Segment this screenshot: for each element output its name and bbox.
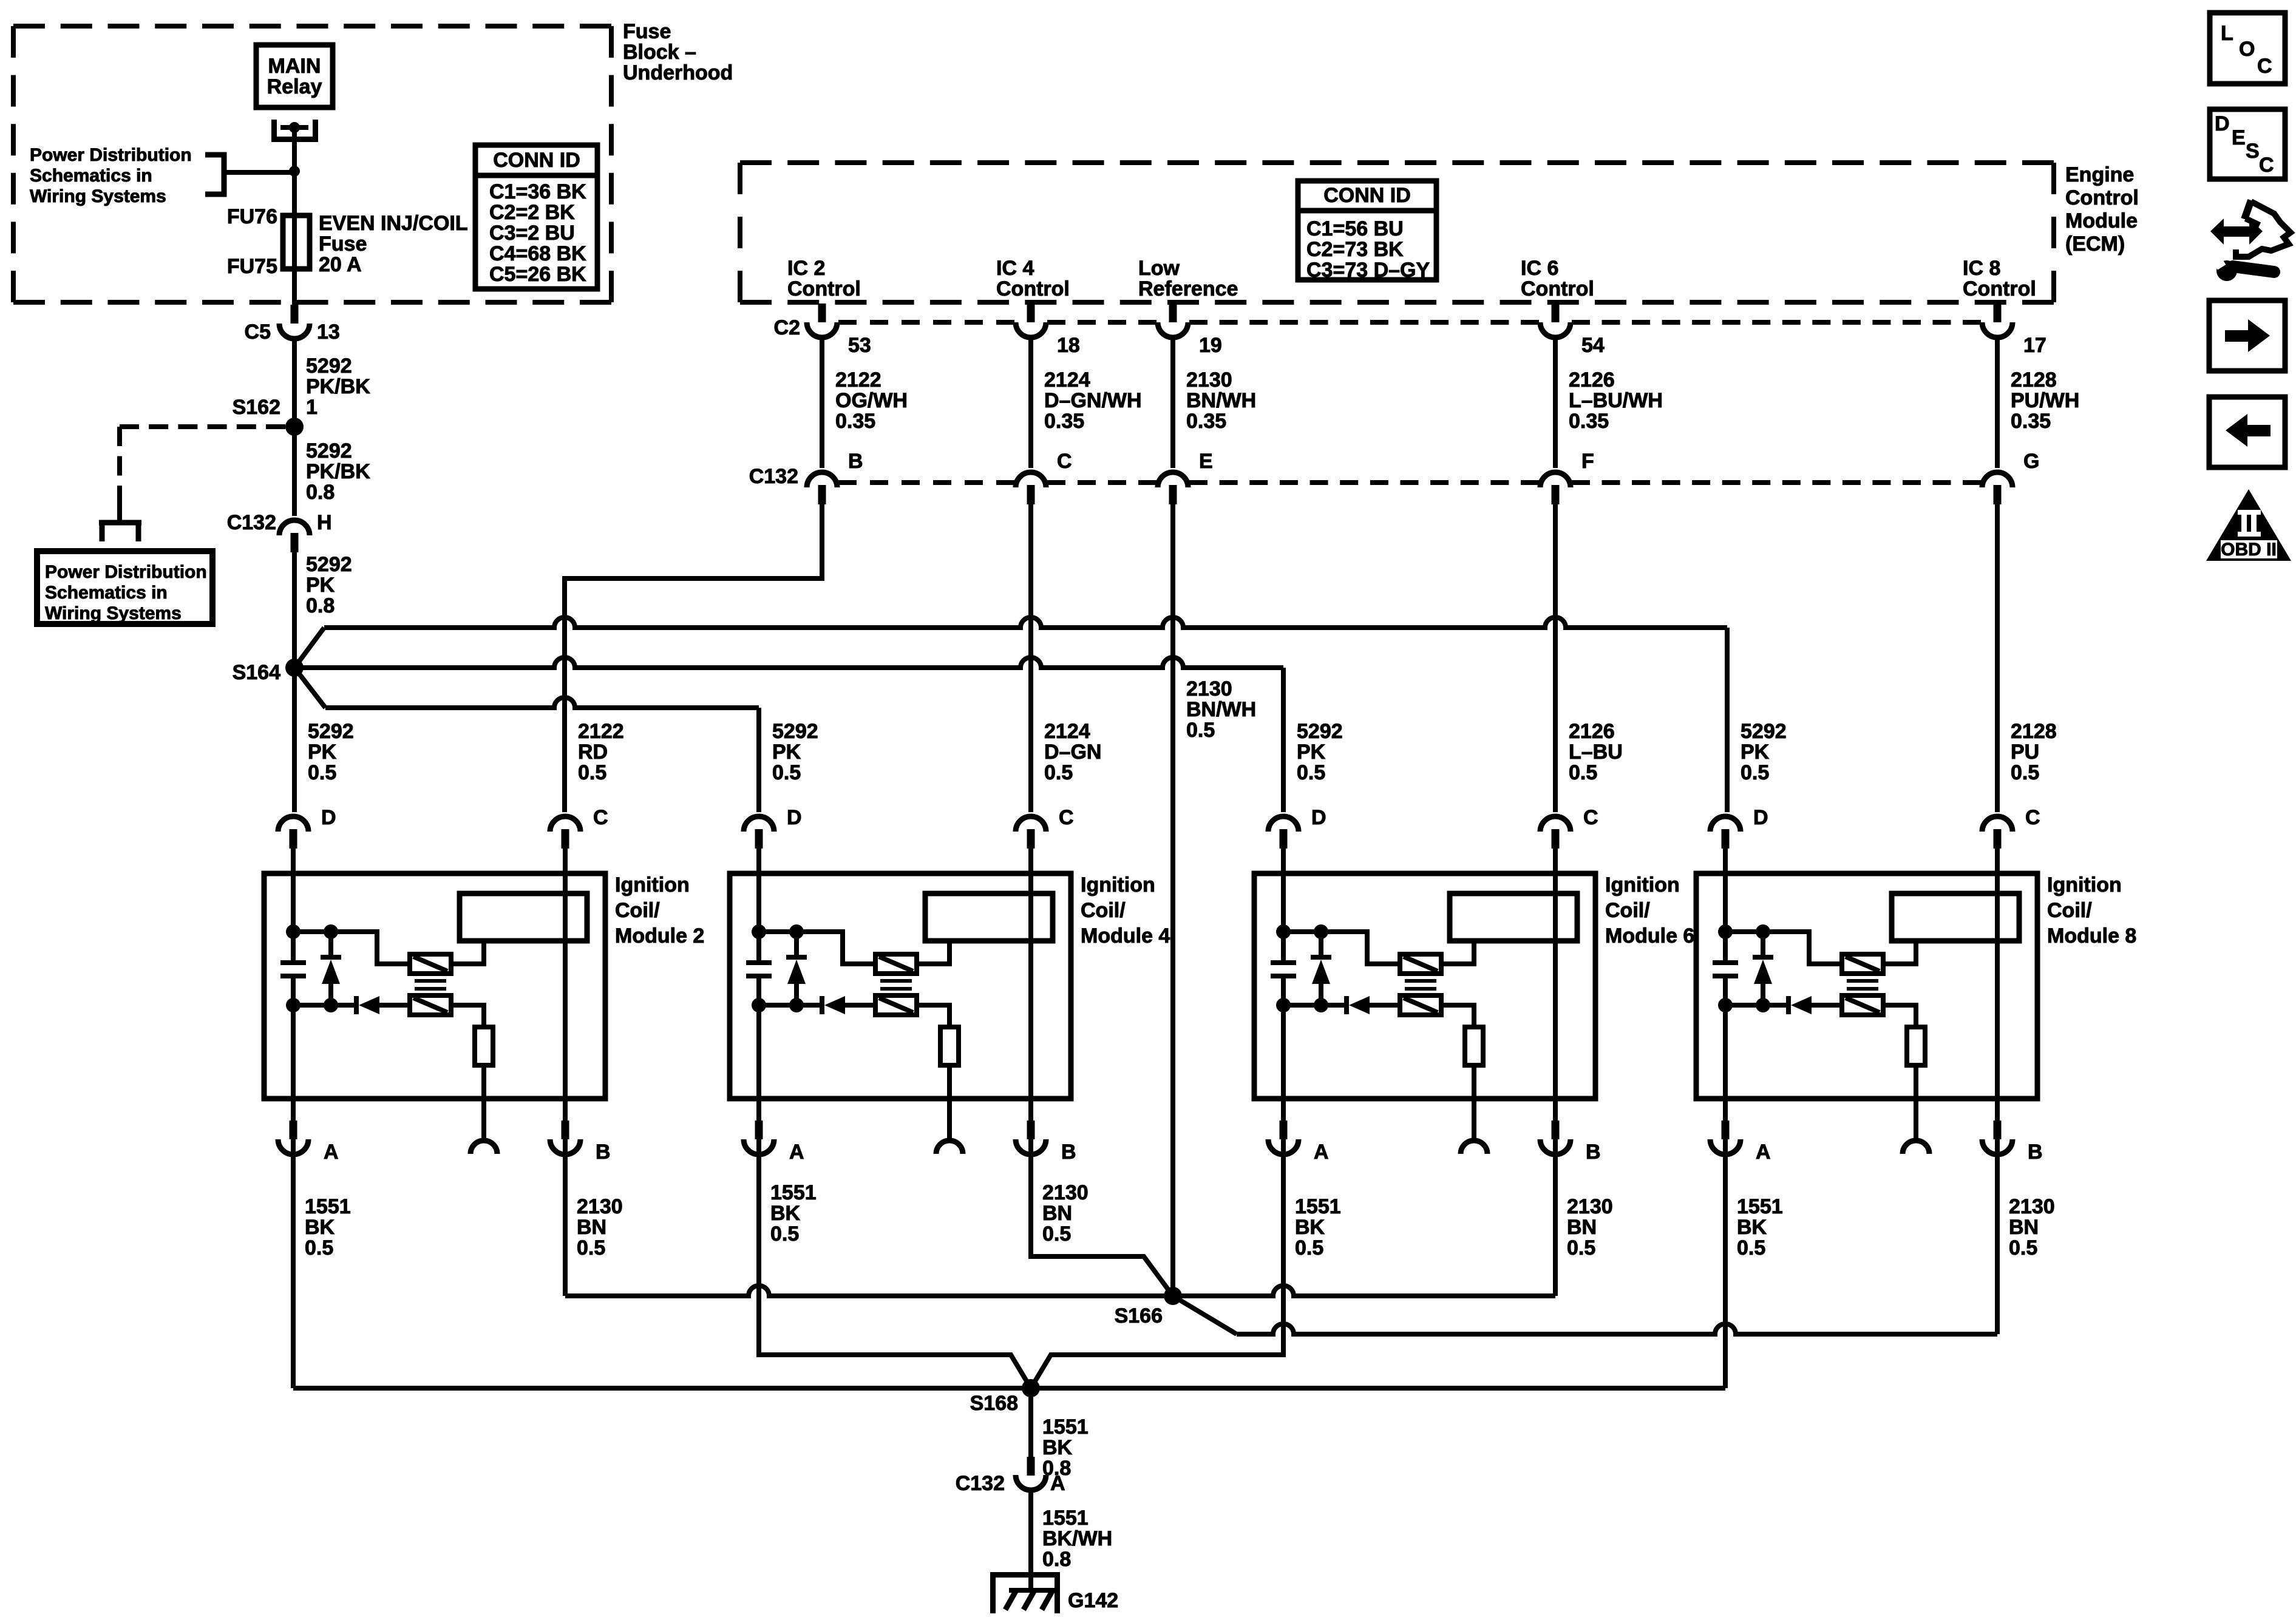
connector: module 4 pin D <box>744 806 802 849</box>
svg-text:PK: PK <box>308 741 337 764</box>
svg-text:Engine: Engine <box>2065 163 2134 186</box>
capacitor (module 8) <box>1713 963 1738 976</box>
svg-text:S168: S168 <box>970 1392 1018 1415</box>
wire 2124 IC 4 control C2 to C132 <box>1031 339 1142 468</box>
svg-text:C: C <box>2025 806 2040 829</box>
svg-text:2122: 2122 <box>835 368 881 392</box>
splice S162 <box>233 396 304 436</box>
node: module 6 bottom rail <box>1276 998 1347 1012</box>
svg-text:C4=68 BK: C4=68 BK <box>489 242 586 265</box>
svg-text:C: C <box>2259 154 2274 177</box>
label: Ignition Coil/Module 8 <box>2047 873 2136 947</box>
svg-text:G: G <box>2023 450 2039 473</box>
svg-text:Power Distribution: Power Distribution <box>45 562 207 582</box>
svg-text:0.5: 0.5 <box>1044 761 1073 784</box>
icon: LOC box <box>2210 13 2285 84</box>
svg-text:D: D <box>1753 806 1768 829</box>
wire 1551 BK/WH 0.8 to ground <box>1031 1491 1112 1592</box>
svg-text:BN: BN <box>1567 1216 1597 1239</box>
svg-text:2126: 2126 <box>1569 368 1615 392</box>
transformer core (module 2) <box>415 981 446 989</box>
connector C132 pin H <box>227 511 332 552</box>
svg-text:C3=73 D–GY: C3=73 D–GY <box>1306 259 1430 282</box>
diode (module 6 clamp, pointing up) <box>1311 932 1331 1005</box>
svg-text:Control: Control <box>1521 277 1594 300</box>
wire 2122 RD 0.5 (jog to module 2 pin C) <box>565 504 822 812</box>
svg-text:5292: 5292 <box>1297 720 1343 743</box>
svg-text:BK: BK <box>770 1202 801 1225</box>
capacitor (module 4) <box>746 963 772 976</box>
connector: module 8 pin C <box>1982 806 2040 849</box>
diode (module 8 clamp, pointing up) <box>1753 932 1773 1005</box>
box: Power Distribution Schematics in Wiring Systems <box>37 551 212 624</box>
svg-text:C: C <box>593 806 608 829</box>
module block rectangle (module 8) <box>1892 893 2019 941</box>
resistor (module 4) <box>940 1027 959 1141</box>
svg-text:Ignition: Ignition <box>1081 873 1155 897</box>
transformer core (module 8) <box>1847 981 1878 989</box>
wire: module 6 C-B path <box>1553 849 1558 1156</box>
ECM dashed box (Engine Control Module) <box>740 163 2054 302</box>
wire 1551 BK 0.5 module 6 pin A to S168 <box>1031 1155 1341 1388</box>
diode (module 4 clamp, pointing up) <box>786 932 807 1005</box>
svg-text:2124: 2124 <box>1044 368 1090 392</box>
svg-text:BN/WH: BN/WH <box>1186 389 1256 412</box>
ground G142 <box>993 1575 1119 1614</box>
svg-text:0.5: 0.5 <box>772 761 801 784</box>
svg-text:B: B <box>1061 1141 1076 1164</box>
svg-text:Coil/: Coil/ <box>1605 899 1650 922</box>
diode (module 8 series, pointing left) <box>1788 996 1842 1014</box>
ECM pin label: IC 8 Control <box>1963 257 2036 300</box>
label: Power Distribution Schematics in Wiring Systems (top) <box>30 145 192 206</box>
wire: secondary to resistor (module 8) <box>1883 1005 1916 1027</box>
svg-text:EVEN INJ/COIL: EVEN INJ/COIL <box>319 212 468 235</box>
fuse block CONN ID table <box>475 145 597 289</box>
connector: module 4 pin B <box>1016 1120 1076 1164</box>
svg-text:0.35: 0.35 <box>1186 410 1226 433</box>
coil secondary winding (module 6) <box>1400 995 1441 1015</box>
svg-text:IC 4: IC 4 <box>996 257 1034 280</box>
svg-text:Module: Module <box>2065 209 2138 232</box>
connector: module 6 pin B <box>1540 1120 1601 1164</box>
ignition coil/module 2 box <box>264 873 605 1099</box>
svg-text:2130: 2130 <box>577 1195 623 1218</box>
svg-text:0.5: 0.5 <box>770 1222 799 1246</box>
svg-text:Ignition: Ignition <box>2047 873 2122 897</box>
svg-text:C: C <box>1059 806 1074 829</box>
svg-text:A: A <box>789 1141 804 1164</box>
svg-text:S164: S164 <box>233 661 280 684</box>
svg-text:2128: 2128 <box>2011 720 2057 743</box>
svg-text:2130: 2130 <box>1186 368 1232 392</box>
svg-text:0.5: 0.5 <box>1297 761 1325 784</box>
svg-text:F: F <box>1581 450 1594 473</box>
svg-text:0.5: 0.5 <box>578 761 606 784</box>
svg-text:Power Distribution: Power Distribution <box>30 145 192 165</box>
svg-text:2124: 2124 <box>1044 720 1090 743</box>
wire 5292 PK 0.5 branch S164 to module 6 pin D <box>294 657 1343 812</box>
svg-text:PK: PK <box>1741 741 1770 764</box>
wire 2128 IC 8 control C2 to C132 <box>1997 339 2079 468</box>
svg-text:C: C <box>2257 55 2272 78</box>
svg-text:0.5: 0.5 <box>1741 761 1769 784</box>
svg-text:L–BU/WH: L–BU/WH <box>1569 389 1663 412</box>
svg-text:E: E <box>2232 126 2246 149</box>
ECM pin label: IC 2 Control <box>787 257 861 300</box>
wire 2130 Low Reference C2 to C132 <box>1173 339 1256 468</box>
svg-text:Underhood: Underhood <box>623 61 733 84</box>
svg-text:Block –: Block – <box>623 41 696 64</box>
svg-text:PU: PU <box>2011 741 2039 764</box>
node: module 4 bottom rail <box>752 998 822 1012</box>
node: power distribution tap junction <box>289 166 300 177</box>
svg-text:BN: BN <box>577 1216 606 1239</box>
resistor (module 6) <box>1465 1027 1483 1141</box>
svg-text:1551: 1551 <box>770 1181 817 1204</box>
svg-text:2130: 2130 <box>1042 1181 1089 1204</box>
node: module 4 top rail <box>752 924 875 964</box>
capacitor (module 2) <box>280 963 306 976</box>
wire 1551 BK 0.5 module 4 pin A to S168 <box>759 1155 1031 1388</box>
svg-text:D: D <box>1311 806 1326 829</box>
svg-text:0.35: 0.35 <box>1569 410 1609 433</box>
svg-text:B: B <box>2028 1141 2043 1164</box>
svg-text:A: A <box>1314 1141 1329 1164</box>
svg-text:Coil/: Coil/ <box>1081 899 1126 922</box>
wire 2130 BN 0.5 module 8 pin B to S166 <box>1173 1155 2055 1334</box>
wire 2128 PU 0.5 to module 8 pin C <box>1997 504 2057 812</box>
wire 5292 PK 0.5 S164 to module 2 pin D <box>294 668 354 812</box>
wire: primary to module block (module 8) <box>1883 941 1916 964</box>
svg-text:Control: Control <box>787 277 861 300</box>
resistor (module 8) <box>1907 1027 1925 1141</box>
svg-text:0.35: 0.35 <box>2011 410 2051 433</box>
diode (module 2 series, pointing left) <box>356 996 410 1014</box>
svg-text:0.8: 0.8 <box>306 594 335 617</box>
label: Ignition Coil/Module 6 <box>1605 873 1694 947</box>
svg-text:54: 54 <box>1581 334 1605 357</box>
connector: module 2 pin A <box>278 1120 339 1164</box>
connector row C132 (inline harness) <box>749 450 2040 504</box>
wire 5292 PK/BK 1 <box>294 340 370 427</box>
svg-text:OBD II: OBD II <box>2221 540 2277 560</box>
wire: module 2 C-B path <box>563 849 568 1156</box>
wire: primary to module block (module 6) <box>1441 941 1474 964</box>
coil primary winding (module 8) <box>1842 954 1883 974</box>
unterminated secondary connector (module 6) <box>1461 1141 1487 1154</box>
svg-text:53: 53 <box>848 334 871 357</box>
svg-text:L–BU: L–BU <box>1569 741 1623 764</box>
wire 2130 BN/WH 0.5 low reference to S166 <box>1173 504 1256 1296</box>
svg-text:Wiring Systems: Wiring Systems <box>45 603 182 623</box>
relay contact symbol <box>274 120 316 140</box>
wire 2126 L-BU 0.5 to module 6 pin C <box>1555 504 1623 812</box>
svg-text:FU76: FU76 <box>227 205 277 228</box>
svg-text:G142: G142 <box>1068 1589 1118 1612</box>
svg-text:19: 19 <box>1199 334 1222 357</box>
svg-text:18: 18 <box>1057 334 1080 357</box>
svg-text:B: B <box>1586 1141 1601 1164</box>
ECM CONN ID table <box>1298 181 1436 282</box>
svg-text:MAIN: MAIN <box>268 55 321 78</box>
wire: module 2 D-A path <box>291 849 296 1156</box>
svg-text:1551: 1551 <box>1295 1195 1341 1218</box>
svg-text:D–GN/WH: D–GN/WH <box>1044 389 1142 412</box>
ignition coil/module 6 box <box>1254 873 1595 1099</box>
svg-text:C3=2 BU: C3=2 BU <box>489 222 575 245</box>
wire: primary to module block (module 4) <box>917 941 949 964</box>
svg-text:E: E <box>1199 450 1213 473</box>
connector row C2 (ECM connector) <box>774 303 2046 357</box>
wire: module 4 D-A path <box>756 849 761 1156</box>
svg-text:2130: 2130 <box>1567 1195 1613 1218</box>
svg-text:C1=56 BU: C1=56 BU <box>1306 217 1404 240</box>
wire: secondary to resistor (module 2) <box>451 1005 484 1027</box>
unterminated secondary connector (module 2) <box>470 1141 497 1154</box>
module block rectangle (module 4) <box>925 893 1053 941</box>
dashed wire: S162 branch to power distribution <box>120 427 285 505</box>
diode (module 4 series, pointing left) <box>822 996 875 1014</box>
svg-text:2122: 2122 <box>578 720 624 743</box>
icon: right arrow box <box>2209 300 2285 371</box>
resistor (module 2) <box>475 1027 493 1141</box>
svg-text:2130: 2130 <box>1186 677 1232 700</box>
svg-text:0.8: 0.8 <box>1042 1548 1071 1571</box>
wire: primary to module block (module 2) <box>451 941 484 964</box>
wire: module 8 C-B path <box>1995 849 2000 1156</box>
connector: module 8 pin D <box>1710 806 1768 849</box>
svg-text:Module 4: Module 4 <box>1081 924 1170 947</box>
svg-text:(ECM): (ECM) <box>2065 232 2125 256</box>
svg-text:0.5: 0.5 <box>1186 719 1215 742</box>
svg-text:13: 13 <box>317 320 340 344</box>
svg-text:0.8: 0.8 <box>306 481 335 504</box>
label: Ignition Coil/Module 4 <box>1081 873 1170 947</box>
svg-text:0.5: 0.5 <box>305 1236 333 1259</box>
svg-text:0.5: 0.5 <box>308 761 336 784</box>
off-page fork symbol <box>99 504 141 541</box>
svg-text:Relay: Relay <box>267 75 322 98</box>
wire: module 8 D-A path <box>1723 849 1728 1156</box>
wire: S168 rail (1551 BK) <box>293 1386 1725 1391</box>
svg-text:1551: 1551 <box>305 1195 351 1218</box>
splice S166 <box>1115 1287 1182 1327</box>
svg-text:BK: BK <box>1042 1436 1073 1459</box>
svg-text:C132: C132 <box>749 465 798 488</box>
svg-text:1: 1 <box>306 396 318 419</box>
svg-text:Schematics in: Schematics in <box>30 166 152 186</box>
label: Fuse Block - Underhood <box>623 20 733 84</box>
svg-text:2130: 2130 <box>2009 1195 2055 1218</box>
svg-text:Wiring Systems: Wiring Systems <box>30 186 166 206</box>
svg-text:C132: C132 <box>956 1472 1005 1495</box>
svg-text:IC 2: IC 2 <box>787 257 825 280</box>
wire 2124 D-GN 0.5 to module 4 pin C <box>1031 504 1101 812</box>
svg-text:Fuse: Fuse <box>623 20 671 43</box>
transformer core (module 6) <box>1405 981 1436 989</box>
svg-text:A: A <box>1050 1472 1065 1495</box>
svg-text:A: A <box>324 1141 339 1164</box>
svg-text:0.5: 0.5 <box>1567 1236 1595 1259</box>
svg-text:0.5: 0.5 <box>1737 1236 1765 1259</box>
svg-text:Module 8: Module 8 <box>2047 924 2136 947</box>
connector: module 6 pin C <box>1540 806 1598 849</box>
wire: module 6 D-A path <box>1281 849 1286 1156</box>
svg-text:5292: 5292 <box>306 553 352 576</box>
icon: OBD II triangle <box>2206 489 2291 561</box>
svg-text:BN: BN <box>1042 1202 1072 1225</box>
icon: DESC box <box>2210 109 2285 179</box>
svg-text:5292: 5292 <box>306 354 352 378</box>
svg-text:1551: 1551 <box>1042 1415 1089 1439</box>
wire 2130 BN 0.5 module 4 pin B to S166 <box>1031 1155 1173 1296</box>
svg-text:PK/BK: PK/BK <box>306 460 370 483</box>
svg-text:Schematics in: Schematics in <box>45 583 168 603</box>
svg-text:BK: BK <box>305 1216 335 1239</box>
coil secondary winding (module 2) <box>410 995 451 1015</box>
connector: module 6 pin D <box>1268 806 1326 849</box>
wire: secondary to resistor (module 6) <box>1441 1005 1474 1027</box>
svg-text:FU75: FU75 <box>227 255 277 278</box>
svg-text:C2: C2 <box>774 316 800 339</box>
connector: module 8 pin B <box>1982 1120 2043 1164</box>
coil primary winding (module 4) <box>875 954 917 974</box>
svg-text:Reference: Reference <box>1138 277 1238 300</box>
wire: S166 rail (2130 BN) <box>565 1286 1555 1296</box>
icon: hand with wrench and double arrow <box>2210 200 2291 281</box>
unterminated secondary connector (module 8) <box>1903 1141 1929 1154</box>
ignition coil/module 8 box <box>1696 873 2037 1099</box>
svg-text:BK: BK <box>1737 1216 1767 1239</box>
bracket: to Power Distribution Schematics (top) <box>205 155 292 194</box>
wire 2130 BN 0.5 module 2 pin B to S166 rail <box>565 1155 623 1296</box>
svg-text:1551: 1551 <box>1737 1195 1783 1218</box>
label: Ignition Coil/Module 2 <box>615 873 704 947</box>
svg-text:C: C <box>1583 806 1598 829</box>
svg-text:C2=73 BK: C2=73 BK <box>1306 238 1404 261</box>
svg-text:PK/BK: PK/BK <box>306 375 370 398</box>
wire: module 4 C-B path <box>1028 849 1033 1156</box>
svg-text:D–GN: D–GN <box>1044 741 1101 764</box>
coil primary winding (module 2) <box>410 954 451 974</box>
svg-text:C1=36 BK: C1=36 BK <box>489 180 586 203</box>
svg-text:Module 2: Module 2 <box>615 924 704 947</box>
svg-text:BN/WH: BN/WH <box>1186 698 1256 721</box>
node: module 8 bottom rail <box>1718 998 1788 1012</box>
svg-text:Coil/: Coil/ <box>615 899 660 922</box>
svg-text:Ignition: Ignition <box>1605 873 1680 897</box>
unterminated secondary connector (module 4) <box>936 1141 963 1154</box>
svg-text:A: A <box>1756 1141 1771 1164</box>
ECM pin label: IC 4 Control <box>996 257 1070 300</box>
module block rectangle (module 2) <box>460 893 587 941</box>
svg-text:5292: 5292 <box>1741 720 1787 743</box>
connector: module 2 pin B <box>550 1120 611 1164</box>
svg-text:PK: PK <box>772 741 801 764</box>
svg-text:Control: Control <box>996 277 1070 300</box>
svg-text:0.35: 0.35 <box>1044 410 1084 433</box>
wire 2130 BN 0.5 module 6 pin B to S166 rail <box>1555 1155 1613 1296</box>
svg-text:C5=26 BK: C5=26 BK <box>489 263 586 286</box>
transformer core (module 4) <box>880 981 912 989</box>
svg-text:C5: C5 <box>245 320 271 344</box>
connector C5 pin 13 <box>245 305 340 344</box>
svg-text:Module 6: Module 6 <box>1605 924 1694 947</box>
svg-text:H: H <box>317 511 332 534</box>
svg-text:S166: S166 <box>1115 1304 1163 1327</box>
svg-text:B: B <box>596 1141 611 1164</box>
connector: module 2 pin C <box>550 806 608 849</box>
wire 1551 BK 0.5 module 8 pin A to S168 rail <box>1725 1155 1783 1388</box>
label: Engine Control Module (ECM) <box>2065 163 2139 256</box>
coil primary winding (module 6) <box>1400 954 1441 974</box>
svg-text:PU/WH: PU/WH <box>2011 389 2079 412</box>
svg-text:D: D <box>321 806 336 829</box>
svg-text:PK: PK <box>1297 741 1326 764</box>
diode (module 6 series, pointing left) <box>1347 996 1400 1014</box>
connector: module 8 pin A <box>1710 1120 1771 1164</box>
svg-text:17: 17 <box>2023 334 2046 357</box>
wire: secondary to resistor (module 4) <box>917 1005 949 1027</box>
connector: module 4 pin A <box>744 1120 804 1164</box>
coil secondary winding (module 8) <box>1842 995 1883 1015</box>
svg-text:5292: 5292 <box>306 439 352 463</box>
svg-text:2126: 2126 <box>1569 720 1615 743</box>
wire 5292 PK 0.5 branch S164 to module 4 pin D <box>294 668 818 812</box>
wire 1551 BK 0.8 S168 to C132 A <box>1031 1388 1089 1480</box>
svg-text:PK: PK <box>306 574 335 597</box>
connector C132 pin A <box>956 1457 1065 1495</box>
coil secondary winding (module 4) <box>875 995 917 1015</box>
connector: module 2 pin D <box>278 806 336 849</box>
wire 5292 PK 0.5 branch S164 to module 8 pin D <box>294 617 1787 812</box>
svg-text:C: C <box>1057 450 1072 473</box>
icon: left arrow box <box>2209 397 2285 467</box>
svg-text:CONN ID: CONN ID <box>1323 184 1411 207</box>
fuse block underhood dashed box <box>13 26 611 302</box>
svg-text:O: O <box>2239 38 2255 61</box>
splice S168 <box>970 1379 1040 1415</box>
svg-text:0.5: 0.5 <box>2009 1236 2037 1259</box>
wire 5292 PK/BK 0.8 <box>294 427 370 516</box>
svg-text:BK/WH: BK/WH <box>1042 1527 1112 1550</box>
svg-text:Control: Control <box>1963 277 2036 300</box>
svg-text:C2=2 BK: C2=2 BK <box>489 201 575 224</box>
svg-text:D: D <box>787 806 802 829</box>
connector: module 6 pin A <box>1268 1120 1329 1164</box>
wire 1551 BK 0.5 module 2 pin A to S168 <box>293 1155 351 1388</box>
connector: module 4 pin C <box>1016 806 1074 849</box>
svg-text:Low: Low <box>1138 257 1180 280</box>
wire: relay contact to fuse FU76 <box>292 129 297 305</box>
svg-text:2128: 2128 <box>2011 368 2057 392</box>
svg-text:1551: 1551 <box>1042 1507 1089 1530</box>
svg-text:BK: BK <box>1295 1216 1325 1239</box>
svg-text:0.5: 0.5 <box>2011 761 2039 784</box>
module block rectangle (module 6) <box>1450 893 1577 941</box>
node: module 6 top rail <box>1276 924 1400 964</box>
svg-text:0.5: 0.5 <box>1295 1236 1323 1259</box>
ECM pin label: Low Reference <box>1138 257 1238 300</box>
svg-text:5292: 5292 <box>772 720 818 743</box>
svg-text:B: B <box>848 450 863 473</box>
diode (module 2 clamp, pointing up) <box>321 932 341 1005</box>
svg-text:Coil/: Coil/ <box>2047 899 2092 922</box>
ECM pin label: IC 6 Control <box>1521 257 1594 300</box>
svg-text:0.35: 0.35 <box>835 410 875 433</box>
svg-text:0.5: 0.5 <box>1569 761 1597 784</box>
